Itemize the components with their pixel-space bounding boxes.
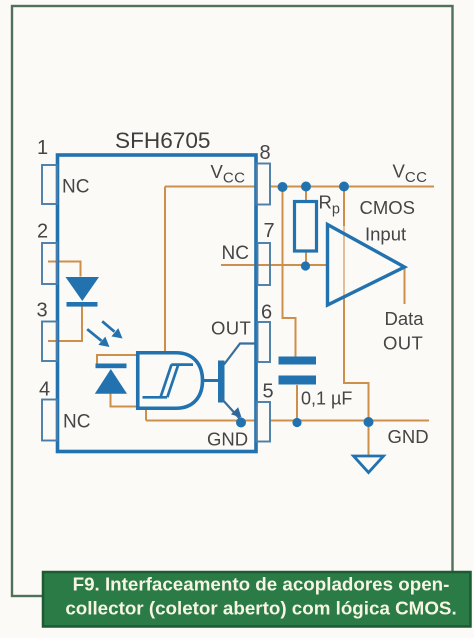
svg-text:2: 2 bbox=[37, 221, 48, 243]
wire photodiode anode to gate bbox=[111, 394, 137, 407]
light arrow upper bbox=[102, 321, 122, 338]
junction dot GND right bbox=[364, 417, 374, 427]
svg-text:OUT: OUT bbox=[211, 318, 251, 339]
junction dot Rp bottom bbox=[301, 261, 310, 270]
svg-text:6: 6 bbox=[261, 302, 272, 324]
capacitor C1 0,1 uF bbox=[279, 357, 317, 385]
svg-text:NC: NC bbox=[222, 243, 249, 264]
wire Data OUT stub bbox=[404, 268, 406, 304]
wire VCC rail external bbox=[270, 186, 434, 188]
junction dot capacitor GND bbox=[292, 418, 301, 427]
wire pin7 NC to CMOS input bbox=[221, 264, 327, 266]
resistor Rp bbox=[295, 202, 317, 252]
wire CMOS power through buffer to GND bbox=[343, 187, 345, 227]
svg-text:3: 3 bbox=[37, 300, 48, 322]
svg-text:collector (coletor aberto) com: collector (coletor aberto) com lógica CM… bbox=[65, 598, 456, 619]
svg-text:GND: GND bbox=[388, 426, 429, 447]
wire LED cathode to pin 3 bbox=[48, 307, 82, 342]
junction dot VCC 1 bbox=[278, 182, 288, 192]
wire GND rail internal bbox=[146, 420, 256, 422]
light arrow lower bbox=[87, 329, 109, 347]
svg-text:8: 8 bbox=[260, 142, 271, 164]
svg-text:F9. Interfaceamento de acoplad: F9. Interfaceamento de acopladores open- bbox=[73, 573, 450, 594]
pin 1 box bbox=[42, 165, 57, 204]
wire gate ground stub bbox=[145, 409, 147, 421]
pin 8 box bbox=[257, 164, 271, 205]
svg-text:SFH6705: SFH6705 bbox=[115, 128, 210, 153]
ground symbol bbox=[354, 456, 384, 473]
svg-text:0,1 µF: 0,1 µF bbox=[301, 389, 352, 409]
pin 6 box bbox=[258, 322, 271, 362]
wire ground symbol stub bbox=[368, 421, 370, 456]
IC body SFH6705 bbox=[58, 155, 257, 452]
svg-text:4: 4 bbox=[39, 379, 50, 401]
wire photodiode cathode to gate bbox=[97, 355, 136, 364]
gate output stub bbox=[203, 379, 219, 382]
wire Rp bottom stub bbox=[305, 251, 307, 266]
schmitt trigger gate U1 bbox=[138, 353, 203, 409]
LED D1 emitter diode bbox=[66, 277, 100, 307]
svg-text:CMOS: CMOS bbox=[360, 197, 416, 218]
transistor Q1 bbox=[218, 344, 256, 420]
junction dot emitter GND bbox=[236, 418, 246, 428]
pin 7 box bbox=[258, 243, 271, 285]
pin 4 box bbox=[42, 400, 57, 441]
svg-text:GND: GND bbox=[207, 429, 248, 450]
svg-text:NC: NC bbox=[62, 177, 89, 198]
pin 3 box bbox=[42, 322, 57, 362]
CMOS buffer U2 bbox=[328, 225, 405, 306]
svg-text:1: 1 bbox=[37, 137, 48, 159]
wire VCC to capacitor bbox=[283, 187, 296, 357]
junction dot VCC 3 bbox=[339, 182, 349, 192]
caption box F9 bbox=[43, 572, 471, 627]
wire VCC internal from pin 8 to gate bbox=[165, 187, 256, 352]
svg-text:Data: Data bbox=[385, 308, 425, 329]
svg-text:Input: Input bbox=[365, 224, 406, 245]
wire Rp top stub bbox=[305, 187, 307, 202]
wire pin 2 to LED anode bbox=[48, 262, 81, 277]
junction dot VCC 2 bbox=[301, 182, 311, 192]
wire GND rail external bbox=[270, 420, 429, 422]
svg-text:NC: NC bbox=[63, 412, 90, 433]
pin 2 box bbox=[42, 243, 57, 284]
svg-text:5: 5 bbox=[263, 381, 274, 403]
photodiode D2 bbox=[95, 364, 127, 394]
svg-text:OUT: OUT bbox=[383, 333, 423, 354]
svg-text:7: 7 bbox=[264, 220, 275, 242]
pin 5 box bbox=[257, 402, 271, 442]
wire capacitor to GND rail bbox=[296, 385, 298, 421]
hysteresis symbol bbox=[143, 365, 194, 398]
